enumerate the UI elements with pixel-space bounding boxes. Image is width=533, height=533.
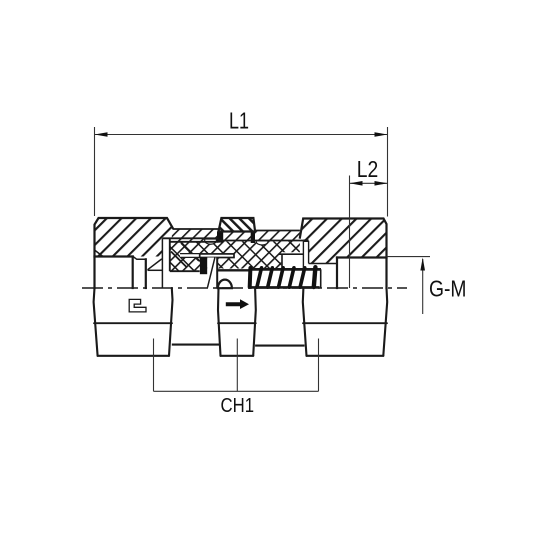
svg-text:G-M: G-M <box>429 276 467 302</box>
center hex outline <box>219 218 256 232</box>
lower half exterior: right waist <box>255 345 304 347</box>
poppet seal (black) <box>200 258 207 275</box>
svg-text:CH1: CH1 <box>221 394 255 417</box>
seal block left of hex (black) <box>217 232 223 243</box>
svg-text:L2: L2 <box>357 156 379 182</box>
CH1 leader lines <box>154 339 319 392</box>
spring seat dome <box>218 280 232 289</box>
L1 dimension <box>95 127 388 217</box>
right nut outline <box>300 219 387 289</box>
left nut bore ledge <box>95 238 163 288</box>
poppet flange <box>200 254 234 258</box>
L2 dimension <box>350 176 388 289</box>
flow direction arrow <box>226 299 249 309</box>
spring chamber top thick line <box>249 268 321 271</box>
hatched section: left nut <box>95 218 173 257</box>
body shoulder band lines <box>162 229 303 242</box>
lower half exterior: left nut <box>94 288 173 356</box>
hatched section: body interior cross-hatch overlay <box>170 242 300 272</box>
body interior accent diagonals <box>171 243 199 268</box>
seal block right of hex (black) <box>251 232 255 244</box>
centerline <box>82 287 407 289</box>
body male end / spring chamber <box>217 254 321 288</box>
G-M dimension <box>387 257 431 314</box>
svg-text:L1: L1 <box>229 108 249 134</box>
lower half exterior: right nut <box>303 288 387 356</box>
manufacturer logo on left nut <box>129 299 146 312</box>
poppet body <box>207 258 217 289</box>
lower half exterior: left waist <box>172 344 219 346</box>
thread run-out notch right <box>256 241 268 245</box>
hatched section: body <box>170 229 300 272</box>
body left edge inside nut <box>170 238 200 271</box>
spring bottom line <box>248 286 320 289</box>
spring coils <box>250 267 316 287</box>
thread run-out notch left <box>205 239 217 244</box>
white pocket: valve seat slot <box>180 254 200 258</box>
lower half exterior: center hex <box>218 288 256 356</box>
main outline: left nut section <box>95 218 173 288</box>
nut-body thread gap channel (right) <box>303 241 337 270</box>
hatched section: right nut <box>300 219 387 264</box>
hatched section: center hex <box>219 218 256 232</box>
